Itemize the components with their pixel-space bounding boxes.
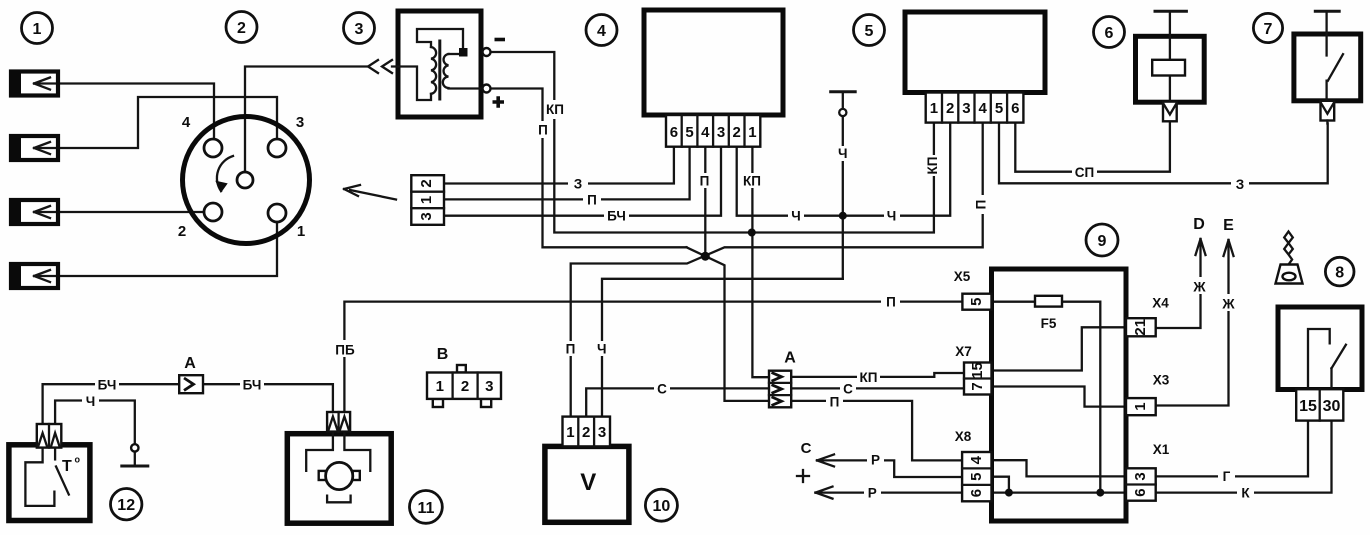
svg-text:А: А [184, 355, 196, 372]
svg-text:А: А [784, 350, 796, 367]
svg-text:Ч: Ч [86, 394, 96, 409]
svg-text:Ч: Ч [791, 209, 801, 224]
svg-text:2: 2 [178, 223, 186, 240]
svg-text:F5: F5 [1041, 316, 1057, 331]
svg-text:12: 12 [117, 497, 135, 514]
svg-text:БЧ: БЧ [243, 378, 262, 393]
svg-text:4: 4 [182, 114, 191, 131]
svg-text:КП: КП [860, 370, 878, 385]
svg-text:X4: X4 [1152, 296, 1169, 311]
svg-text:К: К [1241, 486, 1250, 501]
svg-text:Т: Т [62, 458, 72, 475]
svg-text:2: 2 [237, 20, 246, 37]
svg-text:Ж: Ж [1192, 280, 1206, 295]
svg-text:БЧ: БЧ [607, 209, 626, 224]
svg-text:2: 2 [461, 378, 469, 395]
svg-text:С: С [843, 382, 853, 397]
svg-text:5: 5 [968, 298, 985, 306]
svg-text:6: 6 [968, 489, 985, 497]
svg-text:КП: КП [743, 174, 761, 189]
svg-text:7: 7 [1264, 21, 1273, 38]
svg-text:o: o [75, 455, 81, 465]
svg-text:С: С [801, 440, 812, 457]
svg-text:E: E [1223, 217, 1234, 234]
svg-text:Ч: Ч [597, 342, 607, 357]
svg-text:X7: X7 [955, 344, 972, 359]
svg-text:4: 4 [968, 455, 985, 464]
svg-text:6: 6 [1011, 100, 1019, 117]
svg-text:1: 1 [33, 21, 42, 38]
svg-text:1: 1 [748, 124, 756, 141]
svg-text:X3: X3 [1153, 373, 1170, 388]
svg-text:З: З [1236, 177, 1244, 192]
svg-text:СП: СП [1075, 165, 1094, 180]
svg-text:ПБ: ПБ [335, 343, 355, 358]
svg-text:3: 3 [1132, 472, 1149, 480]
svg-text:3: 3 [296, 114, 304, 131]
svg-text:30: 30 [1323, 398, 1341, 415]
svg-text:5: 5 [685, 124, 693, 141]
svg-text:П: П [974, 200, 989, 210]
svg-text:X8: X8 [955, 429, 972, 444]
svg-text:V: V [580, 469, 596, 496]
svg-text:Ж: Ж [1221, 297, 1235, 312]
svg-text:11: 11 [417, 500, 434, 517]
svg-text:3: 3 [717, 124, 725, 141]
svg-text:2: 2 [946, 100, 954, 117]
svg-text:X1: X1 [1153, 442, 1170, 457]
svg-text:3: 3 [962, 100, 970, 117]
svg-text:15: 15 [969, 362, 986, 379]
svg-text:7: 7 [969, 382, 986, 390]
svg-text:БЧ: БЧ [98, 378, 117, 393]
svg-text:1: 1 [566, 424, 574, 441]
svg-text:5: 5 [865, 23, 874, 40]
svg-text:П: П [587, 192, 597, 207]
svg-text:З: З [574, 177, 582, 192]
svg-text:5: 5 [995, 100, 1003, 117]
svg-text:П: П [538, 123, 548, 138]
svg-text:КП: КП [925, 157, 940, 175]
svg-text:3: 3 [418, 212, 435, 220]
svg-text:21: 21 [1132, 319, 1149, 336]
svg-text:2: 2 [418, 179, 435, 187]
svg-text:Ч: Ч [838, 146, 848, 161]
svg-text:3: 3 [598, 424, 606, 441]
svg-text:В: В [437, 346, 449, 363]
svg-text:6: 6 [1105, 25, 1114, 42]
svg-text:1: 1 [297, 223, 305, 240]
svg-text:П: П [886, 295, 896, 310]
svg-text:П: П [700, 174, 710, 189]
svg-text:9: 9 [1098, 233, 1107, 250]
svg-text:6: 6 [670, 124, 678, 141]
svg-text:1: 1 [930, 100, 938, 117]
svg-text:Р: Р [871, 452, 880, 467]
svg-text:Ч: Ч [887, 209, 897, 224]
svg-text:1: 1 [418, 196, 435, 204]
svg-text:КП: КП [546, 102, 564, 117]
svg-text:С: С [657, 382, 667, 397]
svg-text:3: 3 [355, 21, 364, 38]
svg-text:4: 4 [701, 124, 710, 141]
svg-text:D: D [1193, 216, 1205, 233]
svg-text:8: 8 [1335, 265, 1344, 282]
svg-text:1: 1 [436, 378, 444, 395]
svg-text:2: 2 [582, 424, 590, 441]
svg-text:П: П [566, 342, 576, 357]
svg-text:4: 4 [979, 100, 988, 117]
svg-text:6: 6 [1132, 488, 1149, 496]
svg-text:15: 15 [1299, 398, 1317, 415]
svg-text:П: П [830, 395, 840, 410]
svg-text:4: 4 [597, 23, 606, 40]
svg-text:Р: Р [868, 485, 877, 500]
svg-text:3: 3 [485, 378, 493, 395]
svg-text:X5: X5 [954, 269, 971, 284]
svg-text:1: 1 [1132, 402, 1149, 410]
svg-text:10: 10 [653, 498, 671, 515]
svg-text:5: 5 [968, 473, 985, 481]
svg-text:Г: Г [1223, 469, 1231, 484]
svg-text:2: 2 [733, 124, 741, 141]
